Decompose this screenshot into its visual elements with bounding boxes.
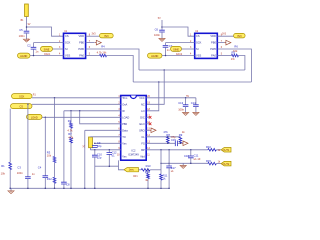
- ground main rail: [8, 191, 14, 194]
- junction C16 bottom: [190, 163, 192, 165]
- junction R9 bottom: [180, 143, 182, 145]
- svg-text:C11: C11: [194, 154, 199, 158]
- svg-text:VCC: VCC: [139, 96, 145, 100]
- junction ground rail: [54, 188, 56, 190]
- resistor R10: [208, 149, 217, 152]
- wire U2 pin6 to bottom rail: [218, 49, 252, 82]
- wire v2 lower: [168, 168, 170, 188]
- svg-text:3V3: 3V3: [237, 35, 242, 38]
- wire U3 pin6 line: [85, 129, 121, 131]
- svg-text:PB0: PB0: [122, 122, 127, 126]
- junction ground rail: [147, 188, 149, 190]
- junction ground rail: [45, 188, 47, 190]
- wire U1 pin8 to flag: [86, 35, 100, 37]
- net flag GND (U1 pin4): [18, 53, 31, 58]
- wire C14 lower: [195, 107, 197, 113]
- battery B1: [25, 4, 29, 17]
- wire lower node line: [161, 162, 208, 164]
- svg-text:100n: 100n: [17, 171, 23, 175]
- svg-text:1n: 1n: [35, 50, 38, 54]
- svg-text:SCK: SCK: [196, 41, 202, 45]
- svg-text:PW0: PW0: [78, 47, 84, 51]
- wire battery to node: [26, 17, 28, 31]
- wire flag to R13: [139, 169, 142, 171]
- svg-text:C5: C5: [19, 28, 23, 32]
- svg-text:1n: 1n: [32, 172, 35, 176]
- capacitor C9 plates: [92, 146, 98, 148]
- svg-text:R13: R13: [146, 164, 151, 168]
- wire C7 to pin4 net: [165, 47, 167, 55]
- svg-text:R5: R5: [232, 50, 236, 54]
- svg-text:Vss: Vss: [122, 154, 127, 158]
- svg-text:C8: C8: [66, 182, 70, 186]
- svg-text:Trim: Trim: [122, 96, 127, 100]
- junction v1 top: [160, 149, 162, 151]
- svg-text:CS: CS: [65, 34, 69, 38]
- svg-text:22p: 22p: [97, 144, 102, 148]
- wire U3 pin7 line: [90, 136, 120, 138]
- resistor R5: [231, 54, 238, 57]
- wire crystal top lead: [89, 136, 91, 138]
- svg-text:100n: 100n: [19, 34, 25, 38]
- resistor R4: [100, 54, 107, 57]
- svg-text:VDD: VDD: [210, 34, 216, 38]
- svg-text:SRO: SRO: [139, 128, 145, 132]
- resistor R2b: [70, 137, 73, 143]
- wire C7 node to U2 pin2: [166, 42, 195, 44]
- junction bottom rail to U3: [158, 81, 160, 83]
- wire U3 pin9 line: [90, 149, 120, 151]
- wire column R3 mid: [54, 163, 56, 178]
- svg-text:DAC2: DAC2: [176, 53, 183, 56]
- wire U2 pin5 to R5: [218, 55, 232, 57]
- wire C16 upper: [190, 150, 192, 156]
- capacitor C6 plates: [159, 30, 165, 32]
- wire U2 pin7 to output terminal: [218, 42, 225, 44]
- wire step to flag 1sec: [119, 160, 125, 169]
- svg-text:Vss: Vss: [122, 141, 127, 145]
- ground near C6: [159, 39, 165, 42]
- svg-text:C4: C4: [38, 165, 42, 169]
- junction 9V node: [26, 26, 28, 28]
- wire down to C2: [33, 43, 35, 48]
- wire bottom rail: [133, 81, 251, 83]
- wire crystal bottom lead: [89, 148, 91, 150]
- wire crystal column to rail: [84, 130, 86, 188]
- wire column C3 lower: [27, 179, 29, 189]
- wire C12 upper: [108, 150, 110, 153]
- wire down to C7: [165, 43, 167, 46]
- junction tie: [109, 165, 111, 167]
- junction CS column: [27, 104, 29, 106]
- wire flag to U2 pin4: [162, 55, 195, 57]
- resistor R8: [167, 137, 170, 143]
- capacitor C3 plates: [25, 177, 31, 179]
- resistor R9: [179, 137, 182, 143]
- junction v2 top: [168, 149, 170, 151]
- wire C13 upper: [185, 98, 187, 105]
- wire U3 VCC to 5V: [146, 97, 196, 99]
- junction v2 mid: [168, 163, 170, 165]
- resistor R13: [141, 169, 150, 172]
- wire C10 upper: [94, 150, 96, 155]
- capacitor C16 plates: [188, 156, 194, 158]
- svg-text:ICM7249: ICM7249: [128, 152, 139, 156]
- wire v1 lower: [160, 180, 162, 188]
- svg-text:PB0: PB0: [211, 41, 216, 45]
- wire column R1 upper: [9, 109, 11, 163]
- wire SCK flag to U3 pin1: [32, 97, 121, 99]
- junction C16 top: [190, 149, 192, 151]
- svg-text:22p: 22p: [97, 156, 102, 160]
- no-connect U3 pin ELO: [149, 123, 152, 126]
- svg-text:FS: FS: [141, 141, 145, 145]
- wire top rail to U3 right pin2: [146, 70, 164, 104]
- wire 5V down: [161, 20, 163, 30]
- wire C10 lower: [94, 157, 96, 188]
- svg-text:SINE: SINE: [44, 48, 50, 51]
- wire C6 to ground: [161, 32, 163, 38]
- wire to R2a: [70, 111, 72, 123]
- wire R14 upper: [147, 170, 149, 174]
- wire 9V node to U1 pin1: [27, 27, 64, 36]
- net flag WAVE (U1 pin3): [41, 46, 53, 51]
- svg-text:u1: u1: [112, 153, 115, 157]
- wire U2 pin8 to flag: [218, 35, 234, 37]
- svg-text:CR1: CR1: [133, 176, 138, 178]
- junction C2/pin4: [33, 55, 35, 57]
- resistor R2a: [70, 123, 73, 129]
- svg-text:R12: R12: [47, 177, 52, 181]
- wire U3 FS line left: [146, 142, 175, 144]
- wire U3 pin stub: [146, 123, 149, 125]
- wire R15 to flag: [216, 163, 221, 165]
- ground C13: [183, 113, 189, 116]
- junction C9 top: [94, 143, 96, 145]
- resistor R3: [53, 157, 56, 163]
- resistor R14: [147, 173, 150, 178]
- wire U3 pin stub: [146, 116, 149, 118]
- wire C14 upper: [195, 98, 197, 105]
- svg-text:9V: 9V: [28, 24, 31, 26]
- svg-text:CL: CL: [141, 135, 145, 139]
- wire LOAD flag to U3 pin4: [42, 116, 121, 118]
- capacitor C8 plates: [61, 182, 67, 184]
- wire to U3 pin5: [80, 111, 121, 124]
- svg-text:R6: R6: [234, 44, 238, 48]
- wire U1 pin5 to R4: [86, 55, 100, 57]
- net flag GND (U2 pin4): [148, 53, 163, 58]
- svg-text:PA0: PA0: [79, 54, 84, 58]
- wire column C8 upper: [63, 111, 65, 182]
- svg-text:R1: R1: [1, 164, 5, 168]
- junction v2 rail: [168, 188, 170, 190]
- capacitor C7 plates: [163, 45, 169, 47]
- svg-text:10k: 10k: [1, 171, 6, 175]
- junction R14 top: [147, 169, 149, 171]
- wire U3 pin SRO stub: [146, 129, 149, 131]
- junction SCK column: [54, 97, 56, 99]
- svg-text:LO: LO: [141, 109, 144, 113]
- wire C5 to ground: [26, 33, 28, 39]
- wire flag to U1 pin4: [30, 55, 64, 57]
- svg-text:ELO: ELO: [139, 122, 144, 126]
- junction ground rail: [84, 188, 86, 190]
- junction R2 column: [70, 110, 72, 112]
- wire column C3 upper: [27, 104, 29, 176]
- capacitor C10 plates: [92, 155, 98, 157]
- junction 5V node U2: [161, 26, 163, 28]
- svg-text:R15: R15: [206, 159, 211, 163]
- wire column C4 upper: [44, 117, 46, 175]
- svg-text:4.7k: 4.7k: [68, 135, 74, 139]
- power flag 3V3 (U1 pin8): [100, 33, 114, 38]
- wire v1 upper: [160, 150, 162, 174]
- junction LOAD column: [45, 117, 47, 119]
- wire U1 pin6 to top rail: [86, 49, 139, 70]
- output terminal U3 SRO: [150, 128, 156, 133]
- svg-text:BP: BP: [141, 148, 145, 152]
- IC U3 notch: [130, 96, 136, 99]
- junction C12 top: [109, 149, 111, 151]
- wire R2b to rail: [70, 143, 72, 188]
- output terminal U1 pin7: [95, 40, 101, 45]
- junction R8 top: [167, 136, 169, 138]
- svg-text:SCK: SCK: [65, 41, 71, 45]
- capacitor C12 plates: [107, 153, 113, 155]
- wire R13 to v1: [150, 169, 161, 171]
- capacitor C14 plates: [193, 105, 199, 107]
- svg-text:SCK: SCK: [19, 96, 24, 99]
- svg-text:100n: 100n: [178, 107, 184, 111]
- wire R5 to top rail: [239, 56, 245, 71]
- net flag OUT1: [221, 148, 231, 153]
- wire U3 CL line: [146, 136, 180, 138]
- svg-text:PW0: PW0: [210, 47, 216, 51]
- svg-text:10k: 10k: [47, 154, 52, 158]
- svg-text:LOAD: LOAD: [31, 116, 38, 119]
- junction ground rail: [63, 188, 65, 190]
- wire U3 BP line: [146, 149, 208, 151]
- capacitor C17 plates: [166, 166, 172, 168]
- wire flag to U2 pin3: [182, 48, 195, 50]
- wire R14 lower: [147, 179, 149, 189]
- junction C9 bottom: [94, 149, 96, 151]
- wire CS flag to U3 pin2: [32, 103, 121, 105]
- svg-text:AGND: AGND: [20, 55, 27, 58]
- ground near C5: [23, 39, 29, 42]
- svg-text:47p: 47p: [171, 135, 176, 139]
- svg-text:4.7k: 4.7k: [67, 128, 73, 132]
- net flag (U2 pin3): [171, 46, 182, 51]
- svg-text:R2: R2: [68, 119, 72, 123]
- net flag LOAD: [27, 114, 43, 119]
- junction ground rail: [94, 188, 96, 190]
- wire v2 upper: [168, 150, 170, 166]
- svg-text:R14: R14: [145, 170, 150, 174]
- wire column R3 upper: [54, 98, 56, 157]
- svg-text:u1.1F: u1.1F: [194, 157, 201, 161]
- wire bottom rail to U3 right pin3: [146, 82, 159, 111]
- wire U3 pin3 net: [64, 110, 121, 112]
- resistor R15: [208, 162, 217, 165]
- wire ground stub: [10, 188, 12, 190]
- wire 5V to U2 pin1: [162, 27, 195, 36]
- svg-text:AGND: AGND: [151, 55, 158, 58]
- wire R4 to bottom rail: [107, 56, 134, 83]
- svg-text:3V3: 3V3: [222, 34, 227, 36]
- junction ground rail: [160, 188, 162, 190]
- svg-text:C6: C6: [155, 27, 159, 31]
- svg-text:NC: NC: [141, 102, 145, 106]
- op-amp U1 body: [64, 33, 86, 58]
- svg-text:C13: C13: [178, 101, 183, 105]
- capacitor C2 plates: [31, 47, 37, 49]
- svg-text:5V: 5V: [158, 18, 161, 20]
- svg-text:PA0: PA0: [211, 54, 216, 58]
- junction top rail to U3: [163, 69, 165, 71]
- svg-text:100n: 100n: [154, 33, 160, 37]
- wire U1 pin7 to output terminal: [86, 42, 95, 44]
- IC U3 body: [121, 96, 147, 161]
- svg-text:LOAD: LOAD: [122, 115, 129, 119]
- junction v1 mid: [160, 163, 162, 165]
- wire C16 lower: [190, 158, 192, 163]
- svg-text:C14: C14: [191, 101, 196, 105]
- output terminal U2 pin7: [225, 40, 231, 45]
- junction C7/pin4: [165, 55, 167, 57]
- svg-text:47k: 47k: [163, 130, 168, 134]
- wire ground rail: [10, 187, 169, 189]
- svg-text:1n: 1n: [167, 48, 170, 52]
- capacitor C5 plates: [24, 31, 30, 33]
- wire U3 pin8 line: [95, 142, 121, 144]
- wire R2a to R2b: [70, 128, 72, 137]
- wire column C8 lower: [63, 184, 65, 188]
- svg-text:SINE: SINE: [173, 48, 179, 51]
- wire C12 to step: [109, 155, 118, 167]
- power flag 3V3 (U2 pin8): [234, 33, 246, 38]
- capacitor C4 plates: [43, 176, 49, 178]
- svg-text:C3: C3: [17, 165, 21, 169]
- svg-text:IC2: IC2: [131, 148, 136, 152]
- junction 5V caps: [185, 97, 187, 99]
- output terminal filter out: [182, 141, 188, 146]
- svg-text:DIC: DIC: [140, 115, 145, 119]
- svg-text:VSS: VSS: [196, 54, 201, 58]
- net flag SCK: [12, 94, 33, 99]
- svg-text:PB0: PB0: [79, 41, 84, 45]
- crystal X1: [89, 137, 93, 148]
- wire ground stub lower: [182, 163, 184, 165]
- ground C14: [193, 113, 199, 116]
- svg-text:4.7k 1%: 4.7k 1%: [97, 50, 107, 54]
- wire R10 to flag: [216, 149, 221, 151]
- capacitor C13 plates: [183, 105, 189, 107]
- svg-text:VDD: VDD: [79, 34, 85, 38]
- op-amp U2 body: [195, 33, 218, 58]
- svg-text:SI: SI: [65, 47, 68, 51]
- svg-text:DAC1: DAC1: [44, 53, 51, 56]
- svg-text:R4: R4: [101, 45, 105, 49]
- junction R8 bottom: [167, 143, 169, 145]
- svg-text:OUT2: OUT2: [223, 163, 230, 166]
- net flag 1sec: [124, 168, 139, 172]
- wire C15 to arrow: [177, 142, 181, 144]
- svg-text:SI: SI: [196, 47, 199, 51]
- svg-text:VSS: VSS: [65, 54, 70, 58]
- wire C10/C12 tie: [95, 165, 110, 167]
- svg-text:u1: u1: [171, 169, 174, 173]
- svg-text:Vdd: Vdd: [140, 154, 145, 158]
- svg-text:3V3: 3V3: [104, 35, 109, 38]
- wire flag to U1 pin3: [53, 48, 64, 50]
- junction ground rail: [9, 188, 11, 190]
- junction pin5 riser: [79, 110, 81, 112]
- wire column R1 lower: [9, 170, 11, 189]
- resistor R12: [53, 177, 56, 183]
- svg-text:CS: CS: [196, 34, 200, 38]
- svg-text:TO: TO: [122, 135, 126, 139]
- svg-text:R10: R10: [206, 145, 211, 149]
- ground lower node: [180, 166, 186, 169]
- svg-text:1%: 1%: [231, 57, 235, 61]
- resistor R1: [9, 162, 12, 169]
- wire C2 to pin4 net: [33, 49, 35, 55]
- resistor R11: [160, 174, 163, 180]
- junction ground rail: [70, 188, 72, 190]
- svg-text:1sec: 1sec: [129, 169, 135, 172]
- junction ground rail: [27, 188, 29, 190]
- svg-text:Data: Data: [122, 128, 128, 132]
- wire top rail: [139, 69, 245, 71]
- svg-text:OsA: OsA: [122, 102, 127, 106]
- svg-text:OUT1: OUT1: [223, 149, 230, 152]
- svg-text:C16: C16: [184, 154, 189, 158]
- svg-text:CS: CS: [20, 106, 24, 109]
- svg-text:5V: 5V: [186, 96, 189, 98]
- capacitor C15 plates: [175, 141, 177, 147]
- no-connect U3 pin DIC: [149, 116, 152, 119]
- svg-text:C2: C2: [27, 43, 31, 47]
- wire C2 node to U1 pin2: [34, 42, 64, 44]
- net flag OUT2: [221, 161, 231, 166]
- net flag CS: [11, 104, 33, 109]
- wire column C4 lower: [44, 178, 46, 189]
- wire column R3 lower: [54, 183, 56, 188]
- wire C13 lower: [185, 107, 187, 113]
- svg-text:3V3: 3V3: [92, 34, 97, 36]
